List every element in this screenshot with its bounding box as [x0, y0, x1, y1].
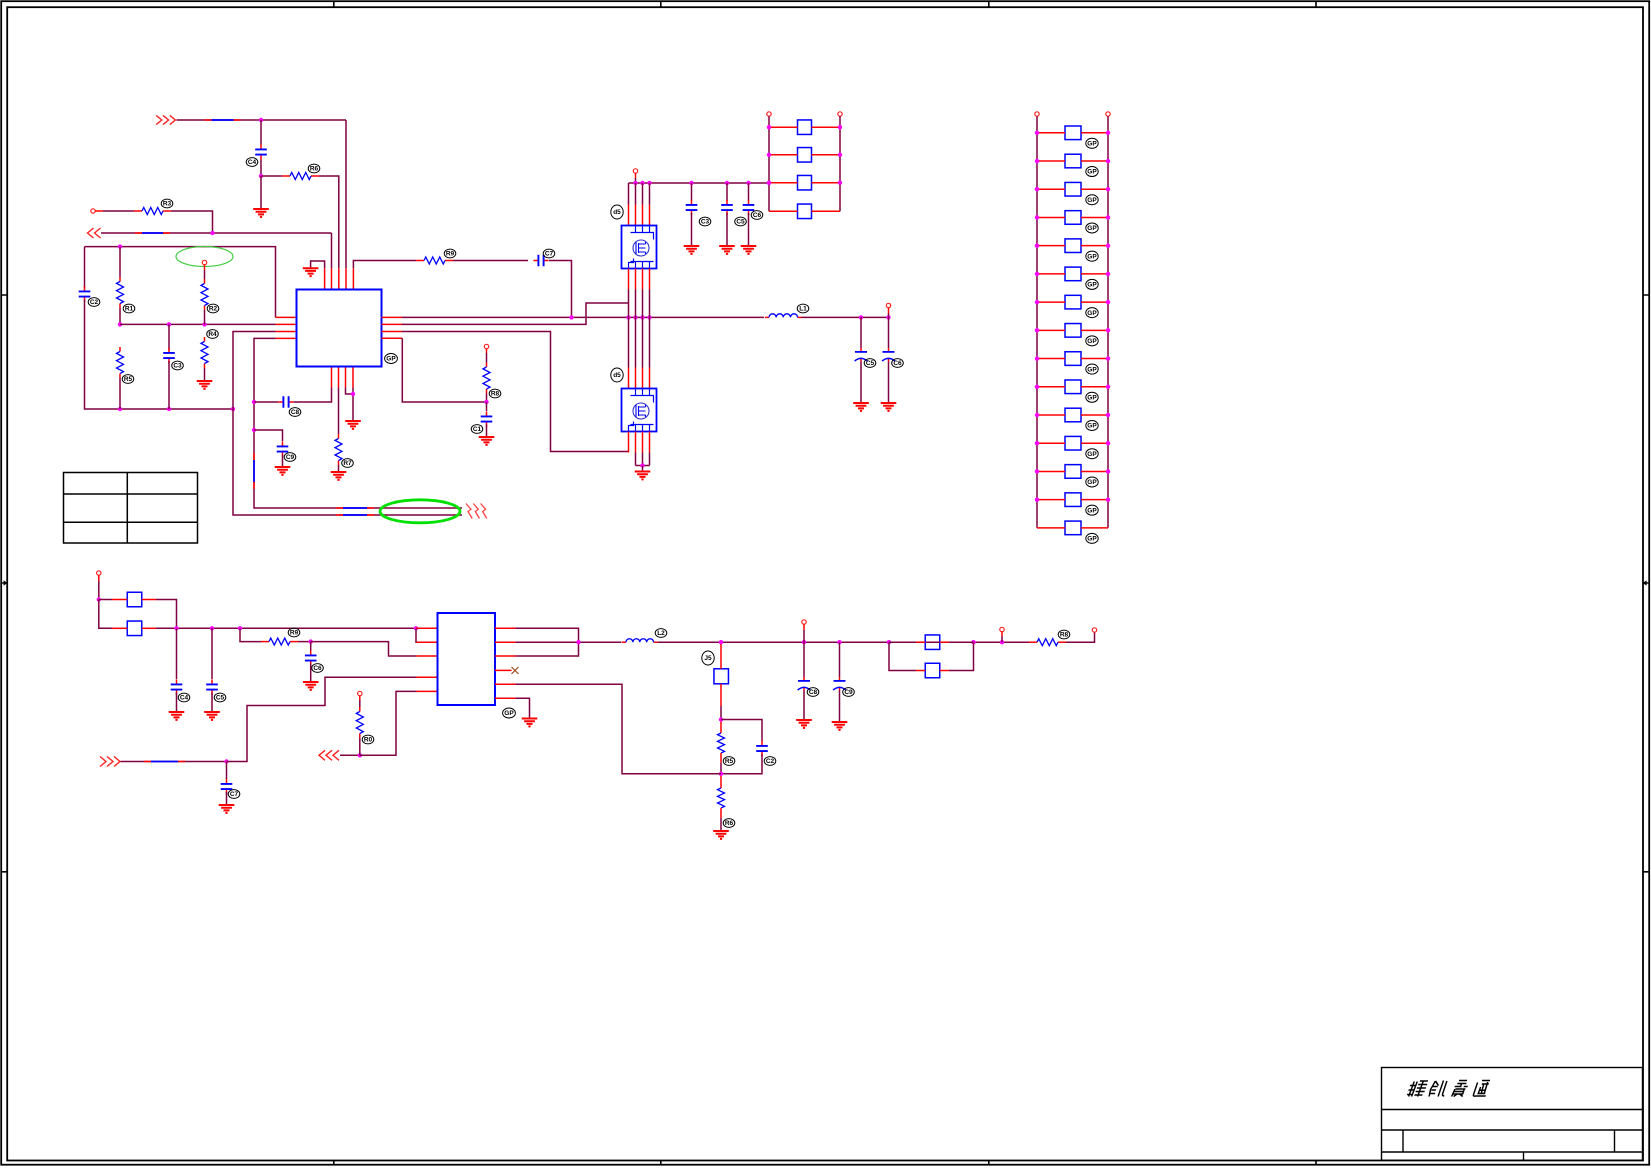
ferrite bead FB5b	[925, 663, 940, 678]
connector element J1-15	[1065, 521, 1081, 535]
label R6a	[207, 304, 219, 313]
wire C13 to ground	[691, 213, 693, 245]
ferrite bead FB5a	[925, 635, 940, 650]
ground below Q2	[635, 472, 651, 480]
junction U-loop / VOUT2 rail	[576, 640, 580, 644]
ground at IC1 top pin1	[303, 268, 319, 276]
lead J1-10 left	[1037, 386, 1065, 388]
pin stub IC1 right pin1	[382, 316, 403, 318]
ground below IC1 pin4	[345, 421, 361, 429]
lead J1-9 right	[1081, 358, 1108, 360]
label C9	[284, 453, 296, 462]
wire RN1 right bus	[839, 116, 841, 211]
pin stub R11 top	[359, 696, 361, 700]
junction VOUT2 at C21	[837, 640, 841, 644]
resistor R4	[117, 277, 124, 308]
resistor network element RN1-2	[798, 148, 812, 163]
wire J1 right bus	[1107, 116, 1109, 528]
label Q1	[611, 205, 623, 219]
pin stub IC1 left pin1	[276, 316, 297, 318]
pin stub TP1	[204, 265, 206, 270]
junction RN1 left bus row 3	[767, 181, 771, 185]
connector element J1-3	[1065, 182, 1081, 196]
svg-text:R0: R0	[364, 737, 373, 744]
wire VOUT2 rail	[516, 641, 622, 643]
resistor R6b	[201, 337, 208, 368]
IC U1 (main controller)	[297, 290, 382, 367]
svg-text:d5: d5	[613, 372, 621, 379]
junction SW rail / RC chain	[569, 315, 573, 319]
connector element J1-7	[1065, 295, 1081, 309]
resistor R14	[718, 788, 725, 808]
pin stub IC2 left pin2	[417, 641, 438, 643]
junction bottom rail at C3	[167, 407, 171, 411]
pin stub IC1 left pin4	[276, 337, 297, 339]
junction PVDD at Q1 pin1	[633, 181, 637, 185]
label R10	[288, 628, 300, 637]
wire C13 top lead	[691, 183, 693, 201]
ground below C11	[853, 403, 869, 411]
capacitor C20 (polarized)	[798, 677, 811, 691]
svg-text:R9: R9	[290, 630, 299, 637]
wire junction down to ground	[260, 176, 262, 208]
svg-text:R6: R6	[725, 820, 734, 827]
label C22	[764, 757, 776, 766]
label L2	[655, 629, 667, 638]
wire R10 node to IC2 pin3	[311, 642, 417, 656]
svg-text:GP: GP	[386, 356, 396, 363]
label R12	[1058, 630, 1070, 639]
wire R12 to port	[1066, 633, 1095, 643]
label GP J1-2	[1086, 167, 1098, 177]
junction PVDD at Q1 pin3	[647, 181, 651, 185]
wire gate drive to Q1	[402, 303, 629, 324]
wire IC1 top pin1 to ground	[311, 261, 325, 268]
pin stub Q1 top pin 2	[635, 205, 637, 226]
label C13	[699, 217, 711, 226]
transistor Q2 (power MOSFET block)	[622, 389, 657, 432]
label C16	[178, 693, 190, 702]
label C2	[88, 298, 100, 307]
junction VOUT2 at FB5 split	[887, 640, 891, 644]
pin stub Q1 bottom pin 1	[628, 269, 630, 290]
capacitor C13	[686, 200, 698, 215]
svg-text:C5: C5	[216, 695, 225, 702]
svg-text:C2: C2	[90, 299, 99, 306]
wire P2 down	[98, 581, 100, 600]
pin stub PVDD	[635, 173, 637, 178]
resistor network element RN1-4	[798, 204, 812, 219]
sheet-entry port chevrons bottom (EN)	[100, 757, 120, 767]
wire C20 to ground	[803, 691, 805, 720]
svg-text:C2: C2	[766, 758, 775, 765]
wire EN to IC2 pin4	[227, 677, 417, 761]
svg-text:GP: GP	[1087, 394, 1097, 401]
junction PVDD at C14	[725, 181, 729, 185]
port VOUT2 tap	[1000, 627, 1004, 631]
wire Q1-Q2 bus 2	[635, 290, 637, 368]
svg-text:C9: C9	[286, 454, 295, 461]
junction RN1 right bus row 2	[838, 153, 842, 157]
lead RN1-4 right	[812, 210, 841, 212]
lead J1-12 left	[1037, 442, 1065, 444]
svg-text:C6: C6	[753, 212, 762, 219]
lead FB4 right	[142, 627, 156, 629]
svg-text:GP: GP	[1087, 451, 1097, 458]
resistor R3	[134, 208, 171, 215]
label GP J1-7	[1086, 308, 1098, 318]
pin stub VOUT2 tap	[1001, 632, 1003, 636]
label GP J1-6	[1086, 279, 1098, 289]
lead FB5b left	[916, 670, 925, 672]
sheet-entry port chevrons top-left (VIN)	[156, 115, 175, 124]
wire R3 to junction on RX net	[171, 211, 213, 233]
junction J1 left bus row 7	[1035, 300, 1039, 304]
svg-text:d5: d5	[613, 209, 621, 216]
wire IC2 pin6 to ground	[516, 698, 530, 717]
svg-text:C6: C6	[313, 665, 322, 672]
lead J1-12 right	[1081, 442, 1108, 444]
wire L1 to output node	[802, 316, 889, 318]
svg-text:C1: C1	[473, 426, 482, 433]
wire C11 to ground	[860, 362, 862, 403]
wire C9 to ground	[282, 455, 284, 467]
lead J1-11 left	[1037, 414, 1065, 416]
wire Q1 pin1 to gate jog	[628, 290, 630, 304]
lead J1-3 left	[1037, 188, 1065, 190]
wire IC1 bottom pin3 tie	[346, 388, 354, 395]
pin stub Q2 top pin 4	[649, 368, 651, 389]
wire Q2 source 4	[649, 453, 651, 466]
ground below R7	[331, 472, 347, 480]
wire R5 to bottom rail	[119, 378, 121, 409]
connector element J1-4	[1065, 211, 1081, 225]
pin stub IC2 left pin1	[416, 627, 438, 629]
resistor R5	[117, 347, 124, 378]
wire C14 to ground	[726, 213, 728, 245]
wire C12 to ground	[888, 362, 890, 403]
wire C22 loop bottom	[721, 754, 762, 774]
junction SW rail / Q bus 4	[647, 315, 651, 319]
svg-text:GP: GP	[1087, 338, 1097, 345]
junction J1 right bus row 13	[1106, 469, 1110, 473]
wire rail to FB5a	[889, 641, 916, 643]
label C15	[751, 211, 763, 220]
junction node C1/R2/GND	[259, 174, 263, 178]
net label segment on line A	[336, 507, 374, 509]
label C12	[892, 359, 904, 368]
wire TP1 to R6a	[204, 270, 206, 279]
capacitor C11 (polarized)	[855, 348, 868, 362]
label C7	[543, 249, 555, 258]
wire C15 top lead	[748, 183, 750, 201]
resistor R12	[1029, 639, 1066, 646]
svg-text:L2: L2	[657, 630, 665, 637]
junction J1 right bus row 4	[1106, 215, 1110, 219]
pin stub Q1 top pin 1	[628, 205, 630, 226]
wire Q1 drain bus 1	[628, 183, 630, 205]
lead RN1-1 right	[812, 126, 841, 128]
label R4	[123, 304, 135, 313]
wire C19 to ground	[226, 792, 228, 804]
wire IC2 pin1-pin2 tie	[416, 628, 429, 642]
lead J1-1 left	[1037, 132, 1065, 134]
label R2	[308, 164, 320, 173]
resistor R11	[356, 707, 363, 738]
label R14	[723, 819, 735, 828]
svg-text:GP: GP	[1087, 536, 1097, 543]
wire C1 top lead	[260, 120, 262, 145]
ground below C10	[479, 437, 495, 445]
junction RN1 left bus row 1	[767, 125, 771, 129]
wire P2 bus down	[99, 600, 112, 629]
ground below C18	[303, 682, 319, 690]
wire L2 to output rail	[658, 641, 1029, 643]
ground below C16	[169, 712, 185, 720]
lead R13 top	[720, 722, 722, 734]
wire P1 to R3	[103, 210, 134, 212]
resistor R6a	[201, 279, 208, 310]
pin stub IC2 right pin2	[495, 641, 516, 643]
junction J1 left bus row 10	[1035, 385, 1039, 389]
wire VIN down to IC1 top pin4	[345, 120, 347, 268]
port VOUT	[886, 303, 890, 307]
ground below C1/R2	[253, 209, 269, 217]
label GP J1-1	[1086, 138, 1098, 148]
svg-text:GP: GP	[1087, 197, 1097, 204]
connector element J1-1	[1065, 126, 1081, 140]
resistor R2	[282, 173, 319, 180]
pin stub Q2 bottom pin 2	[635, 432, 637, 453]
label R5	[122, 375, 134, 384]
label R11	[362, 735, 374, 744]
sheet-entry port chevrons RX (<<)	[88, 228, 101, 238]
label GP J1-13	[1086, 477, 1098, 487]
svg-text:C8: C8	[809, 689, 818, 696]
pin stub Q1 bottom pin 2	[635, 269, 637, 290]
junction J1 right bus row 3	[1106, 187, 1110, 191]
wire P2 to FB3	[99, 599, 112, 601]
port PVDD	[633, 169, 637, 173]
border center arrow left	[1, 580, 8, 585]
junction J1 right bus row 10	[1106, 385, 1110, 389]
wire C19 drop	[226, 762, 228, 780]
pin stub Q2 top pin 3	[642, 368, 644, 389]
junction J1 left bus row 11	[1035, 413, 1039, 417]
pin stub Q2 bottom pin 3	[642, 432, 644, 453]
svg-text:GP: GP	[1087, 507, 1097, 514]
lead FB3 right	[142, 599, 156, 601]
port FB test point	[484, 344, 488, 348]
pin stub Q1 bottom pin 4	[649, 269, 651, 290]
lead J5 top	[720, 644, 722, 669]
svg-text:GP: GP	[1087, 225, 1097, 232]
junction RN1 left bus row 2	[767, 153, 771, 157]
svg-text:J5: J5	[704, 655, 712, 662]
wire VOUT2 sense stub	[803, 630, 805, 642]
label Q2	[611, 368, 623, 382]
junction AVDD rail / R4 chain	[118, 244, 122, 248]
connector element J1-2	[1065, 154, 1081, 168]
resistor network element RN1-1	[798, 120, 812, 135]
capacitor C18	[305, 650, 317, 665]
lead J1-6 left	[1037, 273, 1065, 275]
label GP J1-10	[1086, 392, 1098, 402]
wire IC1 right pin4 to FB node	[402, 338, 486, 402]
junction J1 left bus row 4	[1035, 215, 1039, 219]
wire C8 to IC1 bottom pin1	[294, 388, 332, 403]
wire C21 drop	[839, 642, 841, 677]
junction J1 right bus row 11	[1106, 413, 1110, 417]
wire Q2 source 3	[642, 453, 644, 466]
ground below C20	[796, 720, 812, 728]
ground below C15	[741, 246, 757, 254]
lead J5 bottom	[720, 684, 722, 706]
lead RN1-2 left	[769, 154, 798, 156]
pin stub IC2 right pin3	[495, 655, 516, 657]
resistor R7	[335, 434, 342, 465]
lead J1-13 left	[1037, 470, 1065, 472]
lead J1-14 left	[1037, 499, 1065, 501]
lead J1-8 right	[1081, 329, 1108, 331]
junction J1 right bus row 14	[1106, 497, 1110, 501]
ground below R14	[713, 831, 729, 839]
capacitor C7	[533, 255, 548, 267]
lead J1-4 left	[1037, 216, 1065, 218]
svg-text:R8: R8	[1060, 632, 1069, 639]
lead J1-10 right	[1081, 386, 1108, 388]
connector element J1-9	[1065, 352, 1081, 366]
lead J1-9 left	[1037, 358, 1065, 360]
wire FB5b loop left	[889, 642, 916, 670]
svg-text:R4: R4	[208, 331, 217, 338]
pin stub IC1 right pin3	[382, 331, 403, 333]
wire IC2 pin1-pin3 loop	[516, 628, 579, 656]
svg-text:GP: GP	[1087, 479, 1097, 486]
net label segment vertical on pin4 net	[253, 453, 255, 489]
wire R4 to mid rail	[119, 308, 121, 324]
label GP J1-8	[1086, 336, 1098, 346]
wire R2 to IC1 top pin3	[319, 176, 339, 268]
wire R6b to ground	[204, 368, 206, 380]
pin stub Q1 top pin 3	[642, 205, 644, 226]
capacitor C19	[221, 779, 233, 794]
ground below R6b	[197, 381, 213, 389]
junction VIN at C1 tap	[259, 118, 263, 122]
label GP J1-4	[1086, 223, 1098, 233]
title block frame	[1382, 1068, 1643, 1161]
resistor R8	[483, 363, 490, 394]
junction VOUT2 at C20	[802, 640, 806, 644]
ground below IC2 pin6	[522, 719, 538, 727]
wire FB junction to C10	[486, 402, 488, 411]
pin stub IC1 bottom pin2	[338, 367, 340, 388]
port RN1 right bus	[838, 112, 842, 116]
resistor R13	[718, 733, 725, 753]
connector element J1-5	[1065, 239, 1081, 253]
wire FB5b loop right	[949, 642, 974, 670]
wire R8 to FB junction	[486, 394, 488, 403]
capacitor C12 (polarized)	[882, 348, 895, 362]
inductor L2	[622, 639, 658, 642]
wire Q1 drain bus 3	[642, 183, 644, 205]
label R7	[342, 459, 354, 468]
svg-text:R2: R2	[209, 306, 218, 313]
jumper J5	[714, 669, 729, 684]
harness port chevrons (>>>)	[466, 504, 487, 519]
junction VOUT2 at port stub	[1000, 640, 1004, 644]
pin stub Q2 bottom pin 1	[628, 432, 630, 453]
junction J1 left bus row 13	[1035, 469, 1039, 473]
lead J1-11 right	[1081, 414, 1108, 416]
ferrite bead FB3	[127, 592, 142, 607]
ground below C19	[219, 805, 235, 813]
junction VIN2 at IC2 pin1	[414, 626, 418, 630]
pin stub IC2 right pin4	[495, 669, 512, 671]
connector element J1-11	[1065, 408, 1081, 422]
lead FB5a left	[916, 641, 925, 643]
svg-text:C3: C3	[701, 219, 710, 226]
junction J1 left bus row 6	[1035, 272, 1039, 276]
wire RX down to IC1 top pin2	[331, 233, 333, 268]
wire C2 to bottom rail	[85, 300, 234, 410]
transistor Q1 (power MOSFET block)	[622, 226, 657, 269]
wire IC1 left pin4 net	[254, 338, 462, 508]
pin stub VOUT	[888, 308, 890, 313]
capacitor C17	[206, 679, 218, 694]
label GP J1-5	[1086, 251, 1098, 261]
wire Q1 drain bus 4	[649, 183, 651, 205]
label C8	[289, 408, 301, 417]
lead J1-2 left	[1037, 160, 1065, 162]
capacitor C22	[756, 741, 768, 756]
pin stub P1	[95, 210, 103, 212]
pin stub IC2 left pin5	[417, 690, 438, 692]
label GP J1-14	[1086, 505, 1098, 515]
wire PVDD rail	[629, 182, 770, 184]
wire J5 to RC junction	[720, 706, 722, 720]
junction VOUT2 at FB5 return	[971, 640, 975, 644]
wire IC1 bottom pin2 to R7	[338, 388, 340, 435]
resistor network element RN1-3	[798, 175, 812, 190]
lead RN1-3 left	[769, 182, 798, 184]
wire R9 to C7	[453, 260, 528, 262]
wire IC2 pin5 to divider	[516, 684, 722, 774]
svg-text:C5: C5	[866, 360, 875, 367]
wire VOUT port stub	[888, 313, 890, 317]
connector element J1-12	[1065, 436, 1081, 450]
resistor R10	[261, 638, 298, 645]
wire AVDD left drop to C2	[84, 247, 86, 289]
svg-text:R3: R3	[163, 201, 172, 208]
junction J1 right bus row 8	[1106, 328, 1110, 332]
wire R2 lead from junction	[261, 175, 282, 177]
label R13	[723, 757, 735, 766]
pin stub IC2 right pin6	[495, 697, 516, 699]
port P1 open pin	[91, 209, 95, 213]
pin stub IC1 top pin1	[324, 268, 326, 289]
ground below C13	[684, 246, 700, 254]
pin stub IC2 right pin5	[495, 683, 516, 685]
wire R14 to ground	[720, 818, 722, 830]
junction SW rail / Q bus 1	[626, 315, 630, 319]
capacitor C1	[255, 144, 267, 159]
label J5	[702, 651, 714, 665]
port J1 right bus	[1106, 112, 1110, 116]
net label segment on VIN wire	[205, 119, 241, 121]
label C3	[172, 361, 184, 370]
label C19	[228, 790, 240, 799]
